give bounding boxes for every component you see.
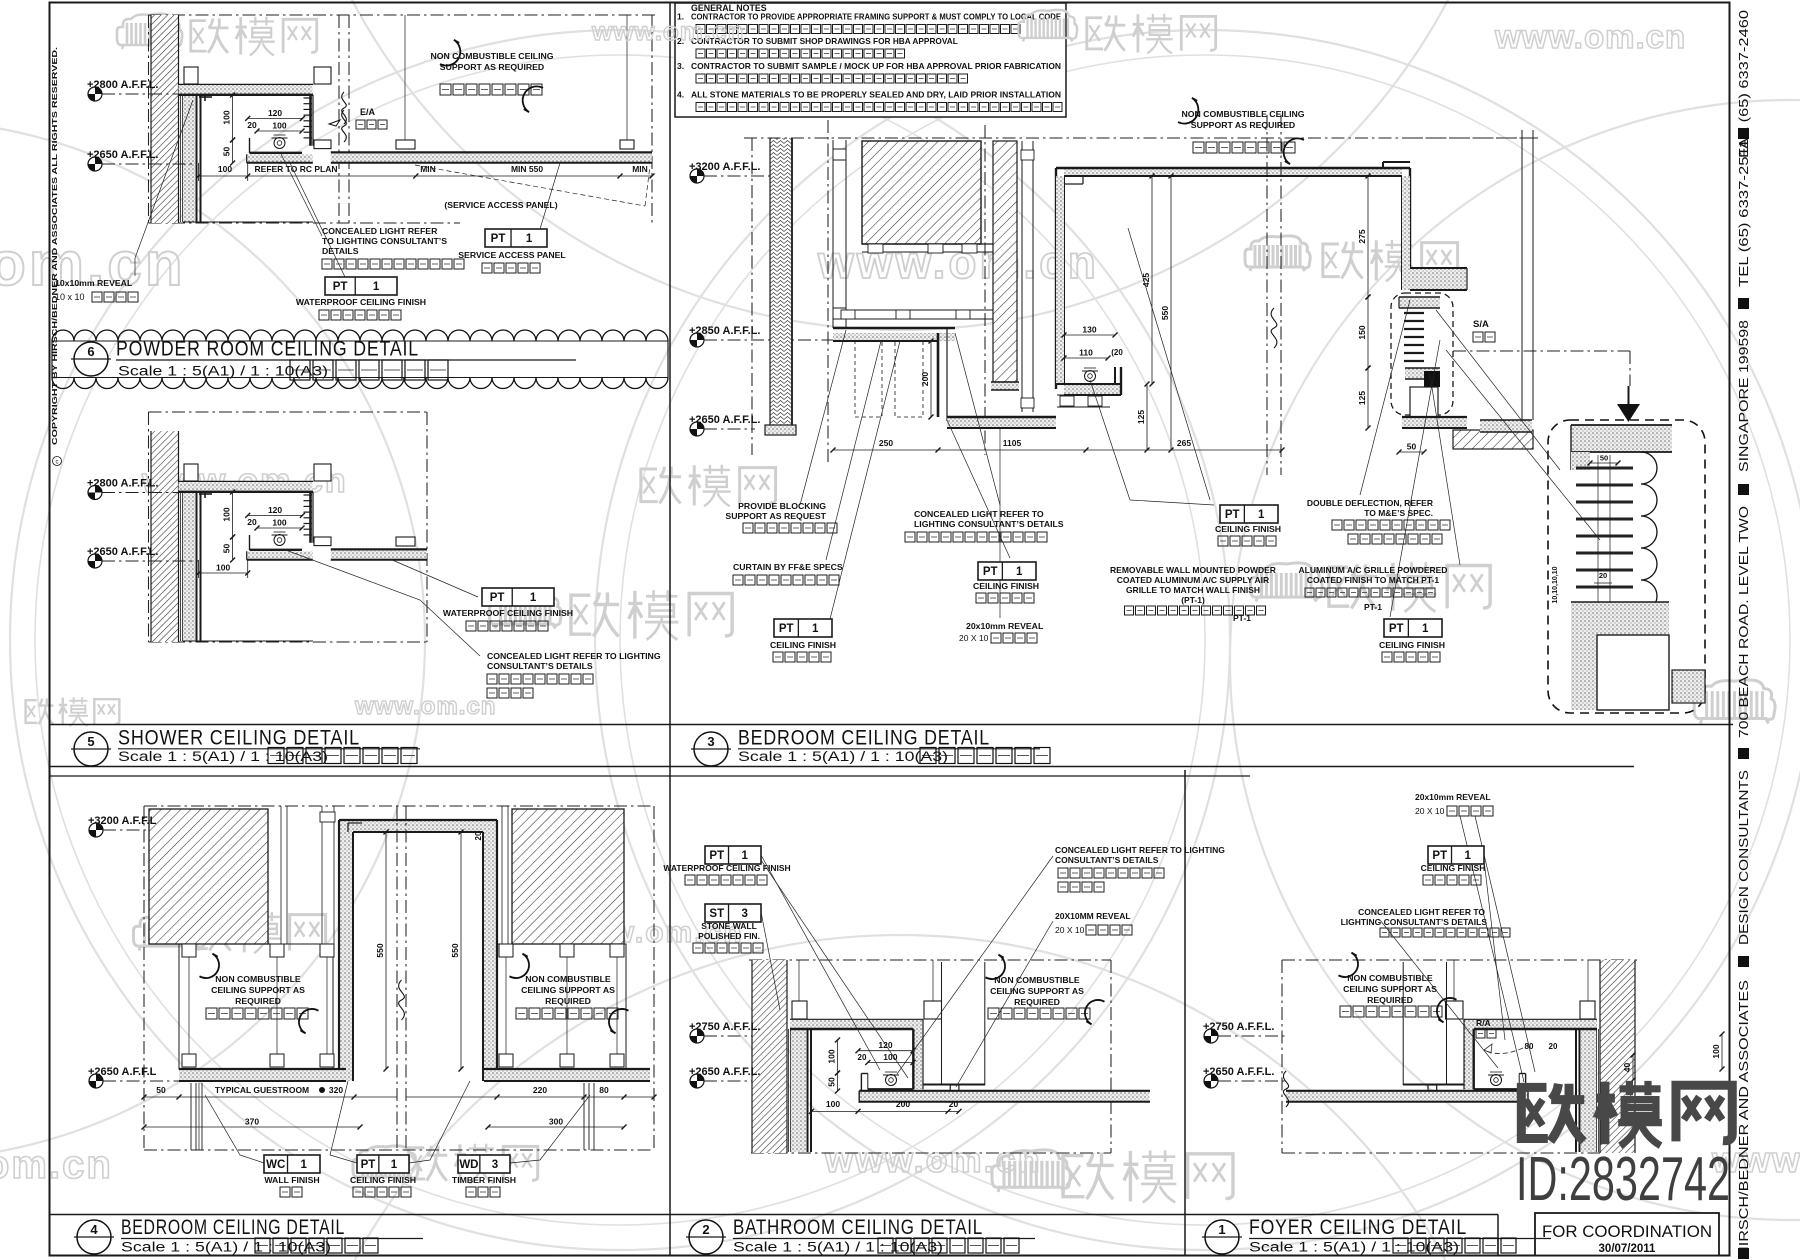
svg-text:ALUMINUM A/C GRILLE POWDERE: ALUMINUM A/C GRILLE POWDERED bbox=[1299, 565, 1448, 575]
svg-text:200: 200 bbox=[920, 372, 930, 386]
svg-text:20X10MM REVEAL: 20X10MM REVEAL bbox=[1055, 911, 1131, 921]
svg-text:CONTRACTOR TO SUBMIT SAMPLE: CONTRACTOR TO SUBMIT SAMPLE / MOCK UP FO… bbox=[691, 61, 1061, 71]
svg-text:Scale 1 : 5(A1) / 1 :: Scale 1 : 5(A1) / 1 : 10(A3) bbox=[121, 1240, 331, 1255]
svg-text:WC: WC bbox=[266, 1159, 285, 1171]
svg-text:120: 120 bbox=[268, 505, 282, 515]
svg-text:CONCEALED LIGHT REFER TO: CONCEALED LIGHT REFER TO bbox=[1358, 907, 1485, 917]
svg-text:CONCEALED LIGHT REFER TO: CONCEALED LIGHT REFER TO bbox=[914, 509, 1044, 519]
svg-text:SERVICE ACCESS PANEL: SERVICE ACCESS PANEL bbox=[458, 250, 566, 260]
svg-text:NON COMBUSTIBLE: NON COMBUSTIBLE bbox=[994, 975, 1080, 985]
svg-text:NON COMBUSTIBLE: NON COMBUSTIBLE bbox=[525, 974, 611, 984]
svg-text:COATED ALUMINUM A/C SUPPLY: COATED ALUMINUM A/C SUPPLY AIR bbox=[1117, 575, 1269, 585]
svg-text:BEDROOM CEILING DETAIL: BEDROOM CEILING DETAIL bbox=[738, 726, 990, 750]
svg-text:125: 125 bbox=[1136, 410, 1146, 424]
svg-text:CEILING FINISH: CEILING FINISH bbox=[350, 1175, 416, 1185]
svg-text:PT-1: PT-1 bbox=[1233, 613, 1251, 623]
svg-text:DETAILS: DETAILS bbox=[322, 246, 359, 256]
svg-text:20x10mm REVEAL: 20x10mm REVEAL bbox=[1415, 792, 1491, 802]
svg-text:275: 275 bbox=[1357, 229, 1367, 243]
svg-text:FAX (65) 6337-2460: FAX (65) 6337-2460 bbox=[1737, 10, 1751, 158]
svg-text:NON COMBUSTIBLE CEILING: NON COMBUSTIBLE CEILING bbox=[430, 51, 553, 61]
svg-text:CEILING FINISH: CEILING FINISH bbox=[770, 640, 836, 650]
svg-text:(SERVICE ACCESS PANEL): (SERVICE ACCESS PANEL) bbox=[444, 200, 557, 210]
svg-text:E/A: E/A bbox=[360, 107, 376, 117]
svg-text:10x10mm REVEAL: 10x10mm REVEAL bbox=[55, 278, 133, 288]
svg-text:CEILING FINISH: CEILING FINISH bbox=[1421, 863, 1486, 873]
svg-text:TIMBER FINISH: TIMBER FINISH bbox=[452, 1175, 516, 1185]
svg-text:MIN: MIN bbox=[420, 164, 436, 174]
svg-text:CONCEALED LIGHT REFER: CONCEALED LIGHT REFER bbox=[322, 226, 438, 236]
svg-text:3: 3 bbox=[707, 734, 714, 749]
svg-text:50: 50 bbox=[156, 1085, 166, 1095]
svg-text:1: 1 bbox=[1422, 623, 1429, 635]
svg-text:20: 20 bbox=[1549, 1042, 1558, 1051]
svg-text:R/A: R/A bbox=[1476, 1018, 1491, 1028]
svg-text:PT: PT bbox=[491, 233, 506, 245]
svg-text:320: 320 bbox=[329, 1085, 343, 1095]
svg-text:c: c bbox=[56, 460, 59, 466]
svg-text:SUPPORT AS REQUEST: SUPPORT AS REQUEST bbox=[725, 511, 826, 521]
svg-text:DESIGN CONSULTANTS: DESIGN CONSULTANTS bbox=[1737, 770, 1751, 945]
svg-text:REQUIRED: REQUIRED bbox=[545, 996, 591, 1006]
svg-text:CEILING FINISH: CEILING FINISH bbox=[973, 581, 1039, 591]
svg-text:3: 3 bbox=[742, 908, 748, 920]
svg-text:PT: PT bbox=[333, 281, 348, 293]
svg-text:20x10mm REVEAL: 20x10mm REVEAL bbox=[966, 621, 1044, 631]
svg-text:TO LIGHTING CONSULTANT’S: TO LIGHTING CONSULTANT’S bbox=[322, 236, 447, 246]
svg-text:NON COMBUSTIBLE CEILING: NON COMBUSTIBLE CEILING bbox=[1181, 109, 1304, 119]
svg-text:ID:2832742: ID:2832742 bbox=[1516, 1145, 1730, 1214]
svg-text:REMOVABLE WALL MOUNTED POWD: REMOVABLE WALL MOUNTED POWDER bbox=[1110, 565, 1276, 575]
svg-text:www.om.cn: www.om.cn bbox=[591, 16, 745, 46]
svg-text:100: 100 bbox=[218, 164, 232, 174]
svg-text:20 X 10: 20 X 10 bbox=[1415, 806, 1445, 816]
svg-text:10 x 10: 10 x 10 bbox=[55, 292, 85, 302]
svg-text:425: 425 bbox=[1141, 273, 1151, 287]
svg-text:550: 550 bbox=[1160, 306, 1170, 320]
svg-text:550: 550 bbox=[450, 943, 460, 957]
svg-text:Scale 1 : 5(A1) / 1 :: Scale 1 : 5(A1) / 1 : 10(A3) bbox=[118, 749, 328, 764]
svg-text:CONSULTANT’S DETAILS: CONSULTANT’S DETAILS bbox=[487, 661, 593, 671]
svg-text:BATHROOM CEILING DETAIL: BATHROOM CEILING DETAIL bbox=[733, 1215, 983, 1239]
svg-text:110: 110 bbox=[1079, 348, 1093, 358]
svg-text:WD: WD bbox=[459, 1159, 478, 1171]
svg-text:PT: PT bbox=[1389, 623, 1404, 635]
svg-text:PT: PT bbox=[1225, 509, 1240, 521]
svg-text:1: 1 bbox=[391, 1159, 398, 1171]
svg-text:NON COMBUSTIBLE: NON COMBUSTIBLE bbox=[215, 974, 301, 984]
svg-text:3.: 3. bbox=[677, 61, 684, 71]
svg-text:PT: PT bbox=[709, 850, 724, 862]
svg-text:20 X 10: 20 X 10 bbox=[959, 633, 989, 643]
svg-text:TEL (65) 6337-2511: TEL (65) 6337-2511 bbox=[1737, 139, 1751, 287]
svg-text:REFER TO RC PLAN: REFER TO RC PLAN bbox=[255, 164, 338, 174]
svg-text:Scale 1 : 5(A1) / 1 :: Scale 1 : 5(A1) / 1 : 10(A3) bbox=[1249, 1240, 1459, 1255]
svg-text:NON COMBUSTIBLE: NON COMBUSTIBLE bbox=[1347, 973, 1433, 983]
svg-text:100: 100 bbox=[827, 1049, 837, 1063]
svg-text:POLISHED FIN.: POLISHED FIN. bbox=[698, 931, 760, 941]
svg-text:WATERPROOF CEILING FINISH: WATERPROOF CEILING FINISH bbox=[443, 608, 573, 618]
svg-text:om.cn: om.cn bbox=[0, 1143, 113, 1187]
svg-text:FOR COORDINATION: FOR COORDINATION bbox=[1542, 1223, 1712, 1241]
svg-text:30/07/2011: 30/07/2011 bbox=[1599, 1243, 1657, 1255]
svg-text:1: 1 bbox=[1218, 1222, 1225, 1237]
svg-text:PROVIDE BLOCKING: PROVIDE BLOCKING bbox=[738, 501, 826, 511]
svg-text:om.cn: om.cn bbox=[0, 230, 186, 299]
svg-text:PT: PT bbox=[490, 592, 505, 604]
svg-text:MIN: MIN bbox=[632, 164, 648, 174]
svg-text:1: 1 bbox=[301, 1159, 308, 1171]
svg-text:100: 100 bbox=[222, 110, 232, 124]
svg-text:REQUIRED: REQUIRED bbox=[235, 996, 281, 1006]
svg-text:CURTAIN BY FF&E SPECS: CURTAIN BY FF&E SPECS bbox=[733, 562, 843, 572]
svg-text:20: 20 bbox=[949, 1099, 959, 1109]
svg-text:4: 4 bbox=[90, 1222, 98, 1237]
svg-text:REQUIRED: REQUIRED bbox=[1014, 997, 1060, 1007]
svg-text:(20: (20 bbox=[1111, 348, 1123, 357]
svg-text:130: 130 bbox=[1082, 325, 1096, 335]
svg-text:1: 1 bbox=[373, 281, 380, 293]
svg-text:6: 6 bbox=[87, 344, 94, 359]
svg-text:200: 200 bbox=[896, 1099, 910, 1109]
svg-text:220: 220 bbox=[533, 1085, 547, 1095]
svg-text:STONE WALL: STONE WALL bbox=[701, 921, 757, 931]
svg-text:PT-1: PT-1 bbox=[1364, 602, 1382, 612]
svg-text:CEILING SUPPORT AS: CEILING SUPPORT AS bbox=[1343, 984, 1437, 994]
svg-text:1: 1 bbox=[742, 850, 749, 862]
svg-text:20: 20 bbox=[1599, 571, 1607, 580]
svg-text:50: 50 bbox=[222, 544, 232, 554]
svg-text:5: 5 bbox=[87, 734, 94, 749]
svg-text:1: 1 bbox=[812, 623, 819, 635]
svg-text:DOUBLE DEFLECTION, REFER: DOUBLE DEFLECTION, REFER bbox=[1307, 498, 1433, 508]
svg-text:MIN 550: MIN 550 bbox=[511, 164, 543, 174]
svg-text:125: 125 bbox=[1357, 391, 1367, 405]
svg-text:4.: 4. bbox=[677, 90, 684, 100]
svg-text:LIGHTING CONSULTANT’S DETAIL: LIGHTING CONSULTANT’S DETAILS bbox=[914, 519, 1064, 529]
svg-text:20: 20 bbox=[247, 120, 257, 130]
svg-text:Scale 1 : 5(A1) / 1 :: Scale 1 : 5(A1) / 1 : 10(A3) bbox=[118, 364, 328, 379]
svg-text:SHOWER CEILING DETAIL: SHOWER CEILING DETAIL bbox=[118, 726, 360, 750]
svg-text:LIGHTING CONSULTANT’S DETAIL: LIGHTING CONSULTANT’S DETAILS bbox=[1341, 917, 1488, 927]
svg-text:40: 40 bbox=[1622, 1063, 1632, 1073]
svg-text:FOYER CEILING DETAIL: FOYER CEILING DETAIL bbox=[1249, 1215, 1467, 1239]
svg-text:COATED FINISH TO MATCH PT-: COATED FINISH TO MATCH PT-1 bbox=[1307, 575, 1439, 585]
svg-text:80: 80 bbox=[599, 1085, 609, 1095]
svg-text:CEILING FINISH: CEILING FINISH bbox=[1215, 524, 1281, 534]
svg-text:50: 50 bbox=[827, 1077, 837, 1087]
svg-text:SUPPORT AS REQUIRED: SUPPORT AS REQUIRED bbox=[440, 62, 544, 72]
svg-text:HIRSCH/BEDNER AND ASSOCIATES: HIRSCH/BEDNER AND ASSOCIATES bbox=[1737, 980, 1751, 1258]
svg-text:1: 1 bbox=[1258, 509, 1265, 521]
svg-text:CONCEALED LIGHT REFER TO L: CONCEALED LIGHT REFER TO LIGHTING bbox=[1055, 845, 1225, 855]
svg-text:100: 100 bbox=[883, 1052, 897, 1062]
svg-text:1: 1 bbox=[1465, 850, 1472, 862]
svg-text:CEILING FINISH: CEILING FINISH bbox=[1379, 640, 1445, 650]
svg-text:BEDROOM CEILING DETAIL: BEDROOM CEILING DETAIL bbox=[121, 1215, 345, 1239]
svg-text:120: 120 bbox=[268, 108, 282, 118]
svg-text:GRILLE TO MATCH WALL FINIS: GRILLE TO MATCH WALL FINISH bbox=[1126, 585, 1260, 595]
svg-text:700 BEACH ROAD. LEVEL TWO: 700 BEACH ROAD. LEVEL TWO bbox=[1737, 506, 1751, 738]
svg-text:CEILING SUPPORT AS: CEILING SUPPORT AS bbox=[521, 985, 615, 995]
svg-text:2: 2 bbox=[702, 1222, 709, 1237]
svg-text:550: 550 bbox=[375, 943, 385, 957]
svg-text:300: 300 bbox=[549, 1117, 563, 1127]
svg-text:100: 100 bbox=[272, 121, 286, 131]
svg-text:TYPICAL GUESTROOM: TYPICAL GUESTROOM bbox=[215, 1085, 309, 1095]
svg-text:20: 20 bbox=[247, 517, 257, 527]
svg-text:POWDER ROOM CEILING DETAIL: POWDER ROOM CEILING DETAIL bbox=[116, 337, 419, 361]
svg-text:250: 250 bbox=[879, 438, 893, 448]
svg-text:100: 100 bbox=[216, 563, 230, 573]
svg-text:100: 100 bbox=[826, 1099, 840, 1109]
svg-text:CEILING SUPPORT AS: CEILING SUPPORT AS bbox=[211, 985, 305, 995]
svg-text:1: 1 bbox=[1016, 566, 1023, 578]
svg-text:PT: PT bbox=[361, 1159, 376, 1171]
svg-text:www.om.cn: www.om.cn bbox=[354, 693, 496, 720]
svg-text:50: 50 bbox=[1600, 454, 1608, 463]
svg-text:PT: PT bbox=[1432, 850, 1447, 862]
svg-text:Scale 1 : 5(A1) / 1 :: Scale 1 : 5(A1) / 1 : 10(A3) bbox=[738, 749, 948, 764]
svg-text:CONSULTANT’S DETAILS: CONSULTANT’S DETAILS bbox=[1055, 855, 1159, 865]
svg-text:ALL STONE MATERIALS TO BE: ALL STONE MATERIALS TO BE PROPERLY SEALE… bbox=[691, 90, 1061, 100]
svg-text:100: 100 bbox=[222, 507, 232, 521]
svg-text:10,10,10,10: 10,10,10,10 bbox=[1552, 566, 1559, 603]
svg-text:CONTRACTOR TO PROVIDE APPRO: CONTRACTOR TO PROVIDE APPROPRIATE FRAMIN… bbox=[691, 12, 1061, 22]
svg-text:1: 1 bbox=[530, 592, 537, 604]
svg-text:20: 20 bbox=[474, 831, 483, 840]
svg-text:ST: ST bbox=[709, 908, 724, 920]
svg-text:CEILING SUPPORT AS: CEILING SUPPORT AS bbox=[990, 986, 1084, 996]
svg-text:(PT-1): (PT-1) bbox=[1181, 595, 1205, 605]
svg-text:20: 20 bbox=[858, 1053, 867, 1062]
svg-text:100: 100 bbox=[1711, 1044, 1721, 1058]
svg-text:150: 150 bbox=[1357, 325, 1367, 339]
svg-text:WATERPROOF CEILING FINISH: WATERPROOF CEILING FINISH bbox=[663, 863, 790, 873]
svg-text:CONCEALED LIGHT REFER TO L: CONCEALED LIGHT REFER TO LIGHTING bbox=[487, 651, 661, 661]
svg-text:REQUIRED: REQUIRED bbox=[1367, 995, 1413, 1005]
svg-text:50: 50 bbox=[1407, 442, 1417, 452]
svg-text:S/A: S/A bbox=[1473, 319, 1489, 330]
svg-text:265: 265 bbox=[1177, 438, 1191, 448]
svg-text:1105: 1105 bbox=[1003, 438, 1022, 448]
svg-text:370: 370 bbox=[245, 1117, 259, 1127]
svg-text:www.om.cn: www.om.cn bbox=[1494, 18, 1686, 55]
svg-text:SINGAPORE 199598: SINGAPORE 199598 bbox=[1737, 320, 1751, 472]
svg-text:TO M&E’S SPEC.: TO M&E’S SPEC. bbox=[1364, 508, 1433, 518]
svg-text:20 X 10: 20 X 10 bbox=[1055, 925, 1085, 935]
svg-text:PT: PT bbox=[983, 566, 998, 578]
svg-text:100: 100 bbox=[272, 518, 286, 528]
svg-text:3: 3 bbox=[492, 1159, 498, 1171]
svg-text:50: 50 bbox=[222, 147, 232, 157]
svg-text:WALL FINISH: WALL FINISH bbox=[264, 1175, 319, 1185]
svg-text:PT: PT bbox=[779, 623, 794, 635]
svg-text:WATERPROOF CEILING FINISH: WATERPROOF CEILING FINISH bbox=[296, 297, 426, 307]
svg-text:SUPPORT AS REQUIRED: SUPPORT AS REQUIRED bbox=[1191, 120, 1295, 130]
svg-text:1: 1 bbox=[526, 233, 533, 245]
